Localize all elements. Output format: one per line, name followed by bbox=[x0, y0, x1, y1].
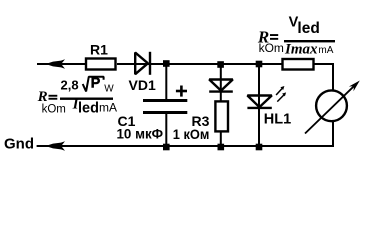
svg-text:led: led bbox=[297, 20, 319, 37]
wire R1 to VD1 bbox=[117, 63, 151, 65]
svg-text:kOm: kOm bbox=[42, 104, 66, 116]
svg-text:10 мкФ: 10 мкФ bbox=[117, 127, 164, 142]
diode VD1 bbox=[135, 52, 150, 75]
LED HL1 emission arrows bbox=[276, 86, 286, 102]
junction node B (top of R3 branch) bbox=[217, 61, 224, 68]
capacitor C1 bbox=[143, 64, 187, 146]
svg-text:W: W bbox=[104, 84, 114, 95]
meter adjustment arrow bbox=[305, 81, 360, 134]
svg-text:1 кОм: 1 кОм bbox=[173, 126, 210, 142]
meter PA1 (circle) bbox=[316, 90, 347, 121]
formula 1: R[kOm] = 2,8*sqrt(P W)/I led mA bbox=[37, 76, 117, 117]
formula 2: R[kOm] = V led / Imax mA bbox=[257, 14, 335, 57]
svg-text:P: P bbox=[91, 76, 101, 92]
wire node A to node B bbox=[166, 63, 221, 65]
wire node C to resistor R bbox=[259, 63, 282, 65]
diode VD2 (R3 branch) bbox=[209, 64, 233, 101]
svg-text:VD1: VD1 bbox=[129, 77, 156, 93]
svg-text:HL1: HL1 bbox=[264, 112, 291, 128]
wire top input (left segment) bbox=[37, 63, 85, 65]
polarity plus of C1 bbox=[176, 86, 187, 97]
svg-text:mA: mA bbox=[99, 101, 117, 115]
wire node B to node C bbox=[221, 63, 259, 65]
svg-text:kOm: kOm bbox=[259, 41, 284, 55]
junction dot bottom of R3 bbox=[218, 144, 225, 151]
wire R3 to bottom bbox=[220, 132, 222, 147]
wire R to meter corner bbox=[314, 64, 334, 90]
svg-text:2,8: 2,8 bbox=[61, 78, 79, 93]
junction dot bottom of C1 bbox=[163, 144, 170, 151]
wire VD1 to node A bbox=[151, 63, 166, 65]
svg-text:Gnd: Gnd bbox=[4, 136, 34, 153]
junction node A (top of C1) bbox=[163, 60, 170, 67]
svg-text:Imax: Imax bbox=[284, 41, 318, 57]
svg-text:led: led bbox=[78, 100, 99, 116]
resistor R1 bbox=[86, 59, 116, 70]
svg-text:mA: mA bbox=[318, 45, 333, 56]
resistor R3 bbox=[215, 101, 228, 131]
LED HL1 bbox=[247, 64, 271, 146]
wire meter to bottom rail bbox=[37, 122, 333, 146]
arrow input off-page (points left) bbox=[46, 59, 66, 69]
junction node C (top of HL1 branch) bbox=[256, 61, 263, 68]
junction dot bottom of HL1 bbox=[256, 144, 263, 151]
svg-text:R1: R1 bbox=[90, 42, 108, 58]
resistor R (series with meter) bbox=[283, 59, 314, 70]
arrow Gnd off-page (points left) bbox=[46, 141, 66, 151]
